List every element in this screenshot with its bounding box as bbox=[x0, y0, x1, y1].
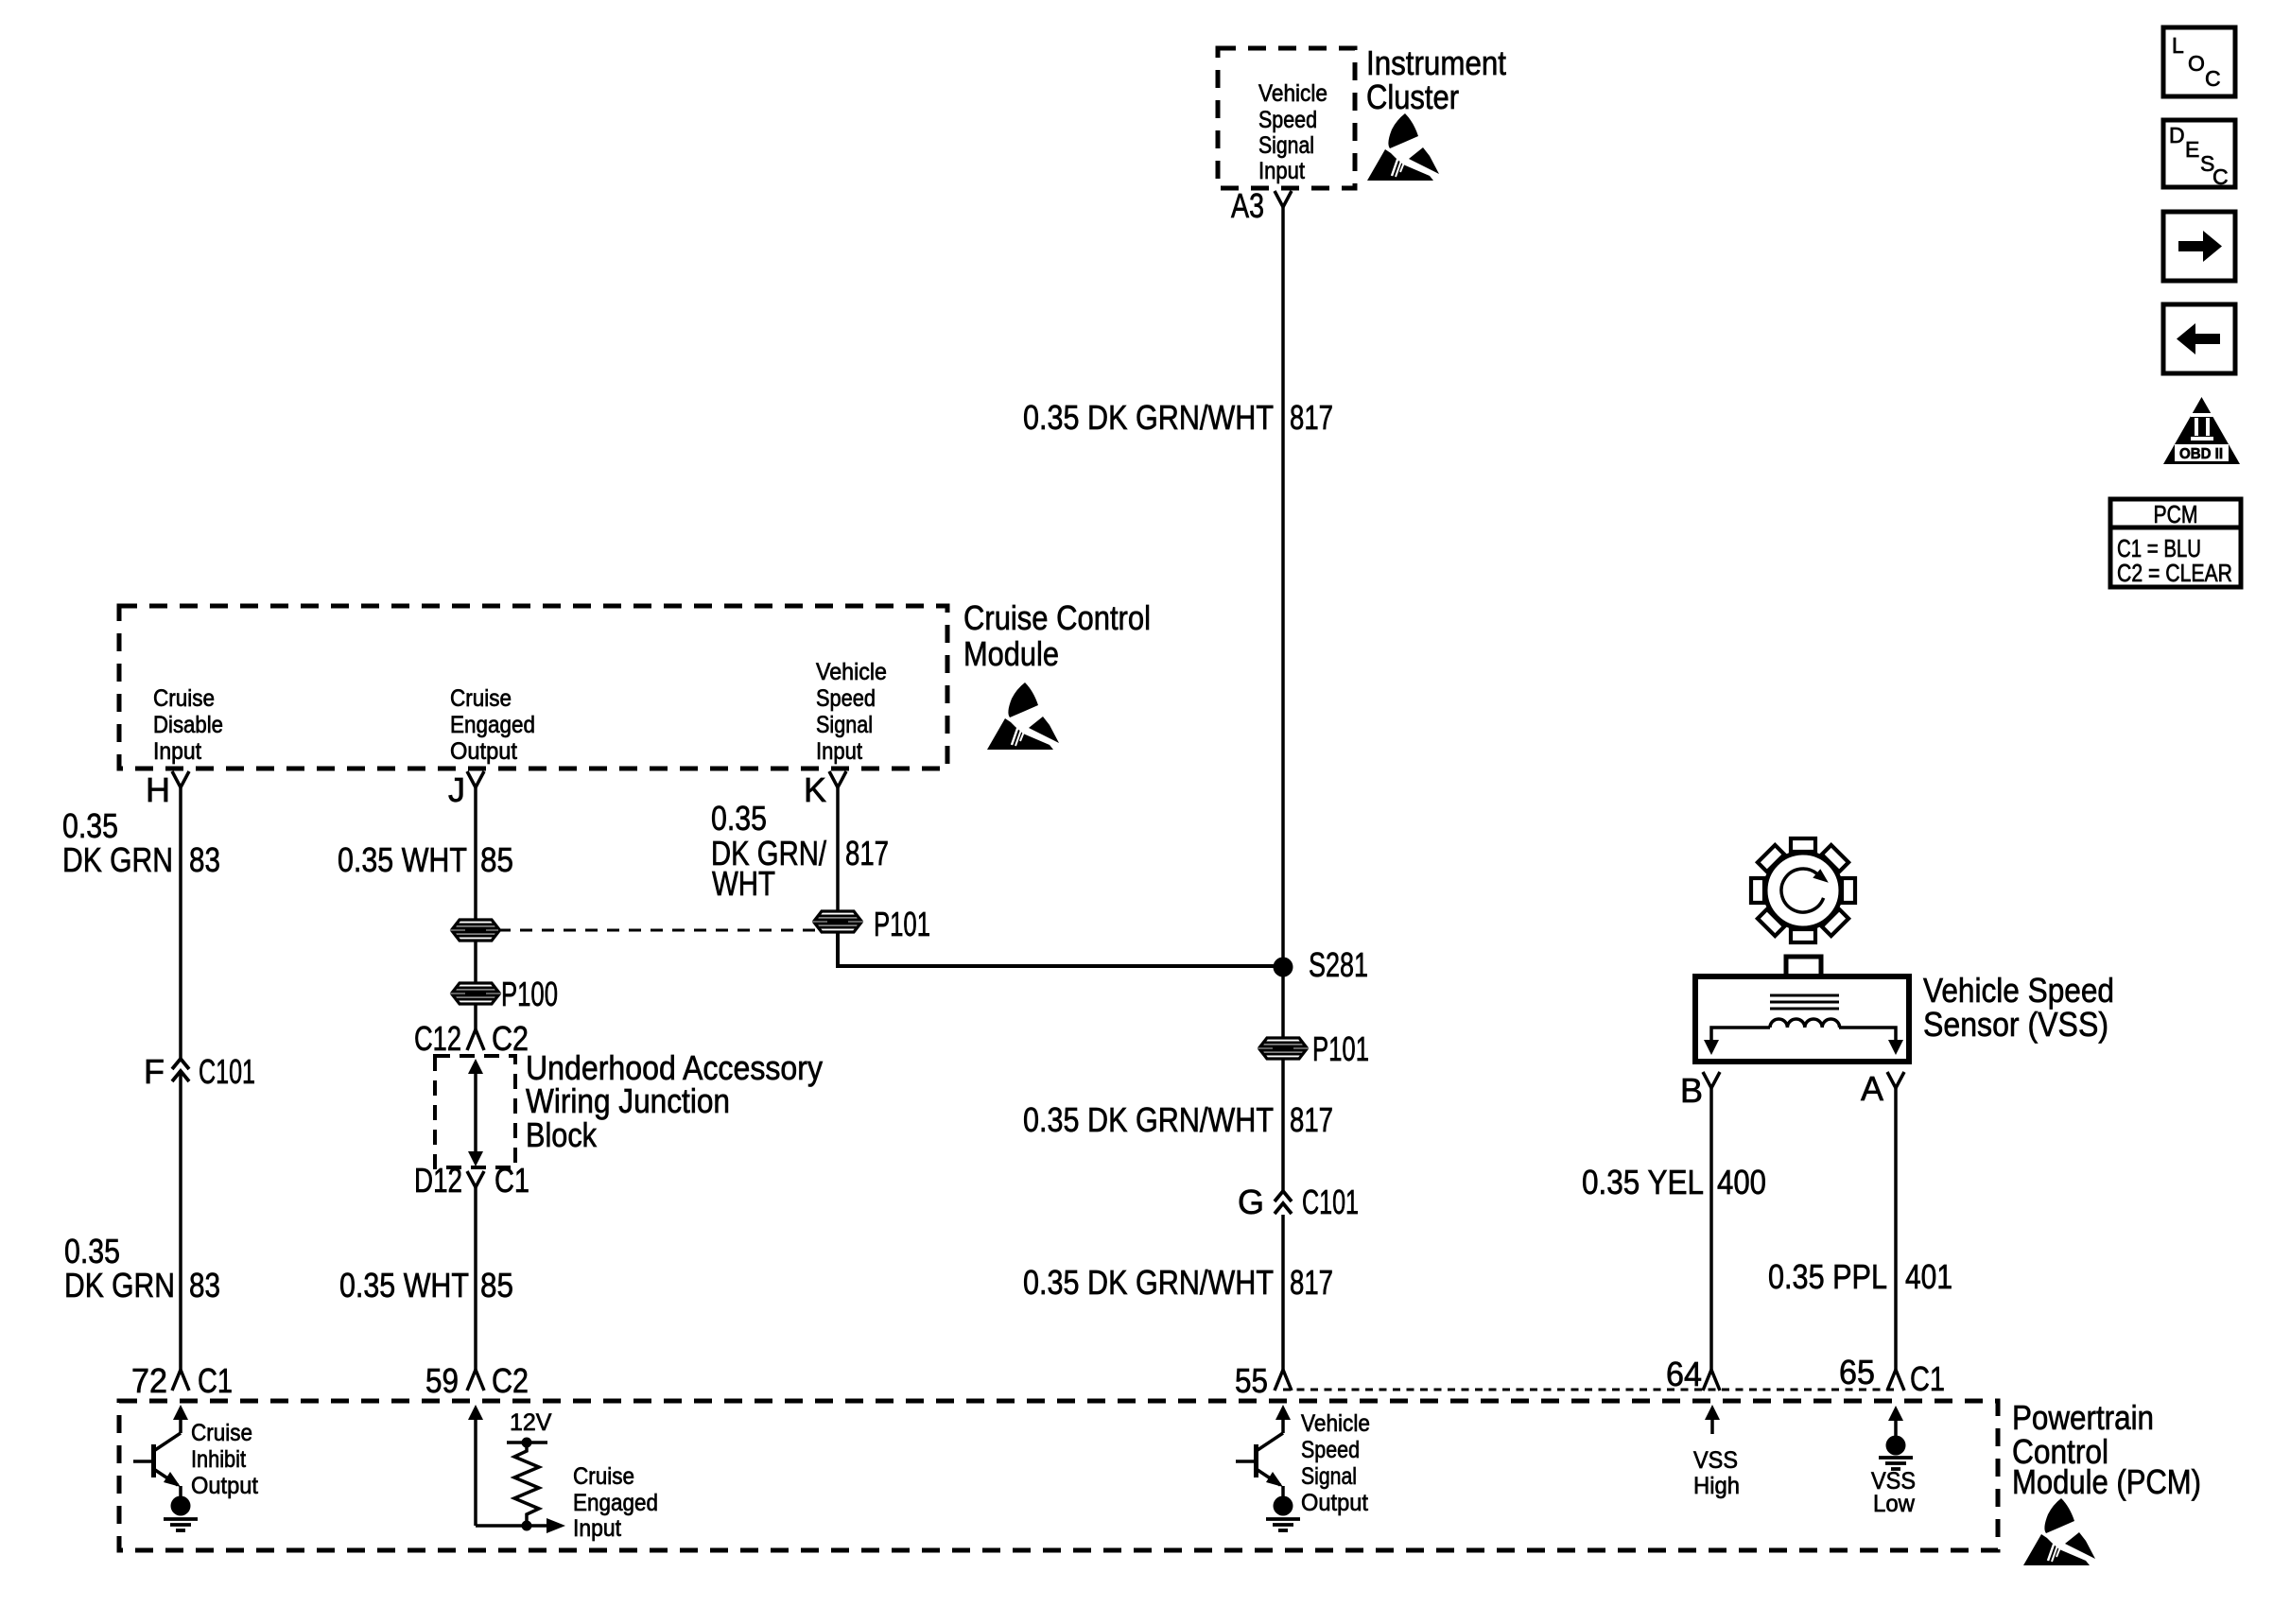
pin H bbox=[146, 770, 189, 809]
VSS Low arrow and ground bbox=[1879, 1406, 1913, 1469]
svg-text:Input: Input bbox=[1258, 158, 1305, 184]
svg-text:C101: C101 bbox=[1302, 1183, 1359, 1221]
pin B bbox=[1680, 1071, 1720, 1110]
svg-text:64: 64 bbox=[1666, 1355, 1702, 1393]
wire B: 0.35 YEL 400 bbox=[1709, 1088, 1713, 1370]
svg-text:C: C bbox=[2212, 164, 2229, 189]
pin 64 bbox=[1666, 1355, 1720, 1393]
wire H upper: 0.35 DK GRN 83 bbox=[179, 787, 182, 1059]
svg-text:Inhibit: Inhibit bbox=[191, 1446, 246, 1473]
svg-text:Cruise: Cruise bbox=[191, 1420, 252, 1446]
pin 72 C1 bbox=[131, 1361, 233, 1400]
svg-text:Sensor (VSS): Sensor (VSS) bbox=[1923, 1005, 2108, 1044]
VSS coil winding bbox=[1770, 1019, 1840, 1028]
svg-text:85: 85 bbox=[480, 840, 513, 879]
svg-text:Input: Input bbox=[816, 738, 862, 765]
svg-text:0.35 YEL: 0.35 YEL bbox=[1582, 1163, 1704, 1201]
svg-text:DK GRN: DK GRN bbox=[62, 840, 173, 879]
svg-text:P101: P101 bbox=[874, 905, 930, 943]
pin C12 / C2 bbox=[414, 1019, 529, 1058]
wire label 817 middle bbox=[1023, 1100, 1333, 1139]
wire label DK GRN 83 lower bbox=[64, 1232, 220, 1304]
svg-text:Speed: Speed bbox=[1301, 1437, 1360, 1463]
svg-text:VSS: VSS bbox=[1693, 1447, 1738, 1474]
svg-text:C12: C12 bbox=[414, 1019, 461, 1058]
svg-text:Wiring Junction: Wiring Junction bbox=[526, 1081, 730, 1120]
pin 65 C1 bbox=[1839, 1353, 1945, 1398]
VSS title bbox=[1923, 971, 2114, 1044]
cruise inhibit output label bbox=[191, 1420, 258, 1499]
VSS High arrow bbox=[1705, 1405, 1720, 1434]
svg-text:P100: P100 bbox=[501, 975, 558, 1013]
svg-text:0.35: 0.35 bbox=[64, 1232, 120, 1270]
svg-text:E: E bbox=[2185, 137, 2199, 162]
PCM legend box bbox=[2110, 499, 2241, 587]
instrument cluster box bbox=[1218, 48, 1355, 188]
VSS core lines bbox=[1770, 995, 1839, 1009]
svg-text:Engaged: Engaged bbox=[450, 712, 535, 738]
junction block internal arrows bbox=[468, 1059, 483, 1166]
svg-text:817: 817 bbox=[1290, 1100, 1333, 1139]
ground of Q1 bbox=[164, 1496, 198, 1531]
svg-text:C1: C1 bbox=[198, 1361, 233, 1400]
VSS mounting tab bbox=[1786, 957, 1821, 976]
svg-text:Vehicle: Vehicle bbox=[1301, 1410, 1370, 1437]
svg-text:85: 85 bbox=[480, 1266, 513, 1304]
svg-text:0.35 DK GRN/WHT: 0.35 DK GRN/WHT bbox=[1023, 1100, 1274, 1139]
wire label WHT 85 lower bbox=[339, 1266, 513, 1304]
svg-text:A: A bbox=[1861, 1069, 1883, 1108]
splice S281 bbox=[1274, 945, 1369, 984]
svg-text:Instrument: Instrument bbox=[1366, 43, 1506, 82]
svg-text:Vehicle Speed: Vehicle Speed bbox=[1923, 971, 2114, 1010]
dashed pairing line between connectors bbox=[498, 929, 815, 932]
svg-text:C1: C1 bbox=[495, 1161, 529, 1200]
svg-text:Output: Output bbox=[450, 738, 517, 765]
svg-text:P101: P101 bbox=[1312, 1029, 1369, 1068]
svg-text:WHT: WHT bbox=[712, 864, 775, 903]
svg-text:Module: Module bbox=[963, 634, 1059, 673]
svg-text:DK GRN: DK GRN bbox=[64, 1266, 175, 1304]
svg-text:O: O bbox=[2188, 51, 2205, 76]
svg-text:Signal: Signal bbox=[1258, 132, 1314, 159]
vehicle speed signal output label bbox=[1301, 1410, 1370, 1516]
svg-text:72: 72 bbox=[131, 1361, 167, 1400]
svg-text:0.35 PPL: 0.35 PPL bbox=[1768, 1257, 1887, 1296]
svg-text:F: F bbox=[144, 1052, 165, 1091]
pin D12 / C1 bbox=[414, 1161, 529, 1200]
pin 55 bbox=[1235, 1361, 1292, 1400]
svg-text:83: 83 bbox=[189, 840, 220, 879]
svg-text:Input: Input bbox=[153, 738, 201, 765]
icon LOC bbox=[2163, 27, 2235, 96]
icon DESC bbox=[2163, 120, 2235, 189]
pin K bbox=[804, 770, 846, 809]
wire J to junction block bbox=[474, 1004, 477, 1029]
svg-text:400: 400 bbox=[1717, 1163, 1766, 1201]
pin 59 C2 bbox=[425, 1361, 529, 1400]
svg-text:817: 817 bbox=[1290, 1263, 1333, 1302]
svg-text:55: 55 bbox=[1235, 1361, 1268, 1400]
connector C101 pin G bbox=[1238, 1183, 1359, 1221]
svg-text:PCM: PCM bbox=[2154, 500, 2198, 528]
svg-text:0.35 WHT: 0.35 WHT bbox=[338, 840, 467, 879]
svg-text:S281: S281 bbox=[1309, 945, 1368, 984]
cruise disable input label bbox=[153, 685, 223, 765]
VSS Low label bbox=[1871, 1468, 1916, 1517]
ESD symbol instrument cluster bbox=[1367, 113, 1439, 181]
underhood accessory wiring junction block title bbox=[526, 1048, 823, 1154]
svg-text:High: High bbox=[1693, 1473, 1740, 1499]
VSS High label bbox=[1693, 1447, 1740, 1499]
svg-text:817: 817 bbox=[1290, 398, 1333, 437]
wire J lower: 0.35 WHT 85 bbox=[474, 1187, 477, 1370]
icon OBD II triangle bbox=[2163, 397, 2240, 464]
wire label PPL 401 bbox=[1768, 1257, 1952, 1296]
wire label WHT 85 upper bbox=[338, 840, 513, 879]
svg-text:C: C bbox=[2205, 66, 2221, 91]
cruise control module title bbox=[963, 598, 1151, 673]
wire S281 to P101 bbox=[1281, 967, 1285, 1037]
resistor R cruise engaged bbox=[514, 1443, 539, 1526]
svg-text:Speed: Speed bbox=[816, 685, 876, 712]
transistor Q1 cruise inhibit output bbox=[133, 1405, 188, 1498]
pin A3 of instrument cluster bbox=[1231, 186, 1292, 225]
svg-text:0.35 DK GRN/WHT: 0.35 DK GRN/WHT bbox=[1023, 1263, 1274, 1302]
powertrain control module title bbox=[2012, 1398, 2201, 1501]
svg-text:Powertrain: Powertrain bbox=[2012, 1398, 2154, 1437]
wire label 817 top bbox=[1023, 398, 1333, 437]
inline connector P101 on main wire bbox=[1260, 1029, 1369, 1068]
svg-text:Input: Input bbox=[573, 1515, 621, 1542]
ESD symbol PCM bbox=[2023, 1498, 2095, 1565]
wire J upper: 0.35 WHT 85 bbox=[474, 787, 477, 920]
svg-text:Cruise: Cruise bbox=[153, 685, 215, 712]
svg-text:J: J bbox=[448, 770, 465, 809]
svg-text:Vehicle: Vehicle bbox=[1258, 80, 1327, 107]
icon arrow left bbox=[2163, 304, 2235, 373]
cruise engaged input wire with arrow bbox=[476, 1518, 565, 1533]
svg-text:Cruise: Cruise bbox=[573, 1463, 634, 1490]
svg-text:A3: A3 bbox=[1231, 186, 1264, 225]
vehicle speed signal input label (cruise) bbox=[816, 659, 887, 765]
svg-text:Cruise Control: Cruise Control bbox=[963, 598, 1151, 637]
svg-text:Module (PCM): Module (PCM) bbox=[2012, 1462, 2201, 1501]
wire label YEL 400 bbox=[1582, 1163, 1766, 1201]
transistor Q2 vehicle speed signal output bbox=[1236, 1405, 1291, 1498]
cruise control module box bbox=[119, 606, 947, 769]
PCM connector dotted line 55 to C1 bbox=[1283, 1389, 1896, 1391]
wire label DK GRN 83 upper bbox=[62, 806, 220, 879]
svg-text:0.35: 0.35 bbox=[711, 799, 767, 838]
pin A bbox=[1861, 1069, 1904, 1108]
svg-text:C2 = CLEAR: C2 = CLEAR bbox=[2117, 559, 2232, 587]
svg-text:Disable: Disable bbox=[153, 712, 223, 738]
svg-text:C2: C2 bbox=[492, 1361, 529, 1400]
ground of Q2 bbox=[1266, 1496, 1300, 1531]
wire P101 to C101 G: 0.35 DK GRN/WHT 817 bbox=[1281, 1060, 1285, 1191]
svg-text:K: K bbox=[804, 770, 826, 809]
wire C101 G to PCM pin 55: 0.35 DK GRN/WHT 817 bbox=[1281, 1215, 1285, 1370]
instrument cluster pin label: Vehicle Speed Signal Input bbox=[1258, 80, 1327, 184]
svg-text:0.35 WHT: 0.35 WHT bbox=[339, 1266, 469, 1304]
svg-text:59: 59 bbox=[425, 1361, 459, 1400]
svg-text:B: B bbox=[1680, 1071, 1703, 1110]
svg-text:C1: C1 bbox=[1910, 1359, 1945, 1398]
ESD symbol cruise control module bbox=[987, 682, 1059, 750]
svg-text:83: 83 bbox=[189, 1266, 220, 1304]
instrument cluster title bbox=[1366, 43, 1506, 116]
svg-text:G: G bbox=[1238, 1183, 1264, 1221]
svg-text:Output: Output bbox=[191, 1473, 258, 1499]
wire K elbow to S281 bbox=[838, 932, 1283, 966]
svg-text:Block: Block bbox=[526, 1115, 598, 1154]
svg-text:D12: D12 bbox=[414, 1161, 462, 1200]
svg-text:0.35: 0.35 bbox=[62, 806, 118, 845]
svg-text:Cluster: Cluster bbox=[1366, 78, 1459, 116]
inline connector P101 on wire K bbox=[815, 905, 930, 943]
svg-text:Signal: Signal bbox=[816, 712, 873, 738]
svg-text:Cruise: Cruise bbox=[450, 685, 512, 712]
12V rail bbox=[507, 1438, 547, 1448]
svg-text:Low: Low bbox=[1873, 1491, 1916, 1517]
svg-text:401: 401 bbox=[1905, 1257, 1952, 1296]
svg-text:C101: C101 bbox=[199, 1052, 255, 1091]
wire H lower: 0.35 DK GRN 83 bbox=[179, 1070, 182, 1370]
arrow into pin 59 bbox=[468, 1405, 483, 1526]
svg-text:C2: C2 bbox=[492, 1019, 529, 1058]
svg-text:L: L bbox=[2172, 33, 2184, 58]
svg-text:OBD II: OBD II bbox=[2179, 446, 2223, 462]
wire label DK GRN/WHT 817 (K) bbox=[711, 799, 889, 903]
inline connector P100 bbox=[453, 975, 558, 1013]
cruise engaged output label bbox=[450, 685, 535, 765]
VSS gear icon bbox=[1751, 838, 1855, 942]
inline connector on wire J (to P101) bbox=[453, 920, 498, 941]
svg-text:817: 817 bbox=[845, 834, 889, 872]
svg-text:Vehicle: Vehicle bbox=[816, 659, 887, 685]
svg-text:Output: Output bbox=[1301, 1490, 1368, 1516]
underhood junction block box bbox=[435, 1056, 515, 1167]
VSS box bbox=[1695, 976, 1909, 1062]
pin J bbox=[448, 770, 484, 809]
VSS internal leads with arrows bbox=[1704, 1028, 1903, 1055]
svg-text:H: H bbox=[146, 770, 170, 809]
svg-text:12V: 12V bbox=[510, 1409, 552, 1436]
svg-text:65: 65 bbox=[1839, 1353, 1875, 1391]
connector C101 pin F bbox=[144, 1052, 255, 1091]
wire A3 to S281: 0.35 DK GRN/WHT 817 bbox=[1281, 207, 1285, 958]
svg-text:Signal: Signal bbox=[1301, 1463, 1357, 1490]
svg-text:Speed: Speed bbox=[1258, 107, 1317, 133]
wire label 817 bottom bbox=[1023, 1263, 1333, 1302]
wire J between connectors bbox=[474, 941, 477, 983]
svg-text:0.35 DK GRN/WHT: 0.35 DK GRN/WHT bbox=[1023, 398, 1274, 437]
icon arrow right bbox=[2163, 212, 2235, 281]
PCM box bbox=[119, 1401, 1998, 1550]
wire A: 0.35 PPL 401 bbox=[1894, 1088, 1898, 1370]
cruise engaged input label bbox=[573, 1463, 658, 1542]
svg-text:Engaged: Engaged bbox=[573, 1490, 658, 1516]
svg-text:D: D bbox=[2169, 123, 2185, 147]
wire K: 0.35 DK GRN/WHT 817 bbox=[836, 787, 840, 911]
